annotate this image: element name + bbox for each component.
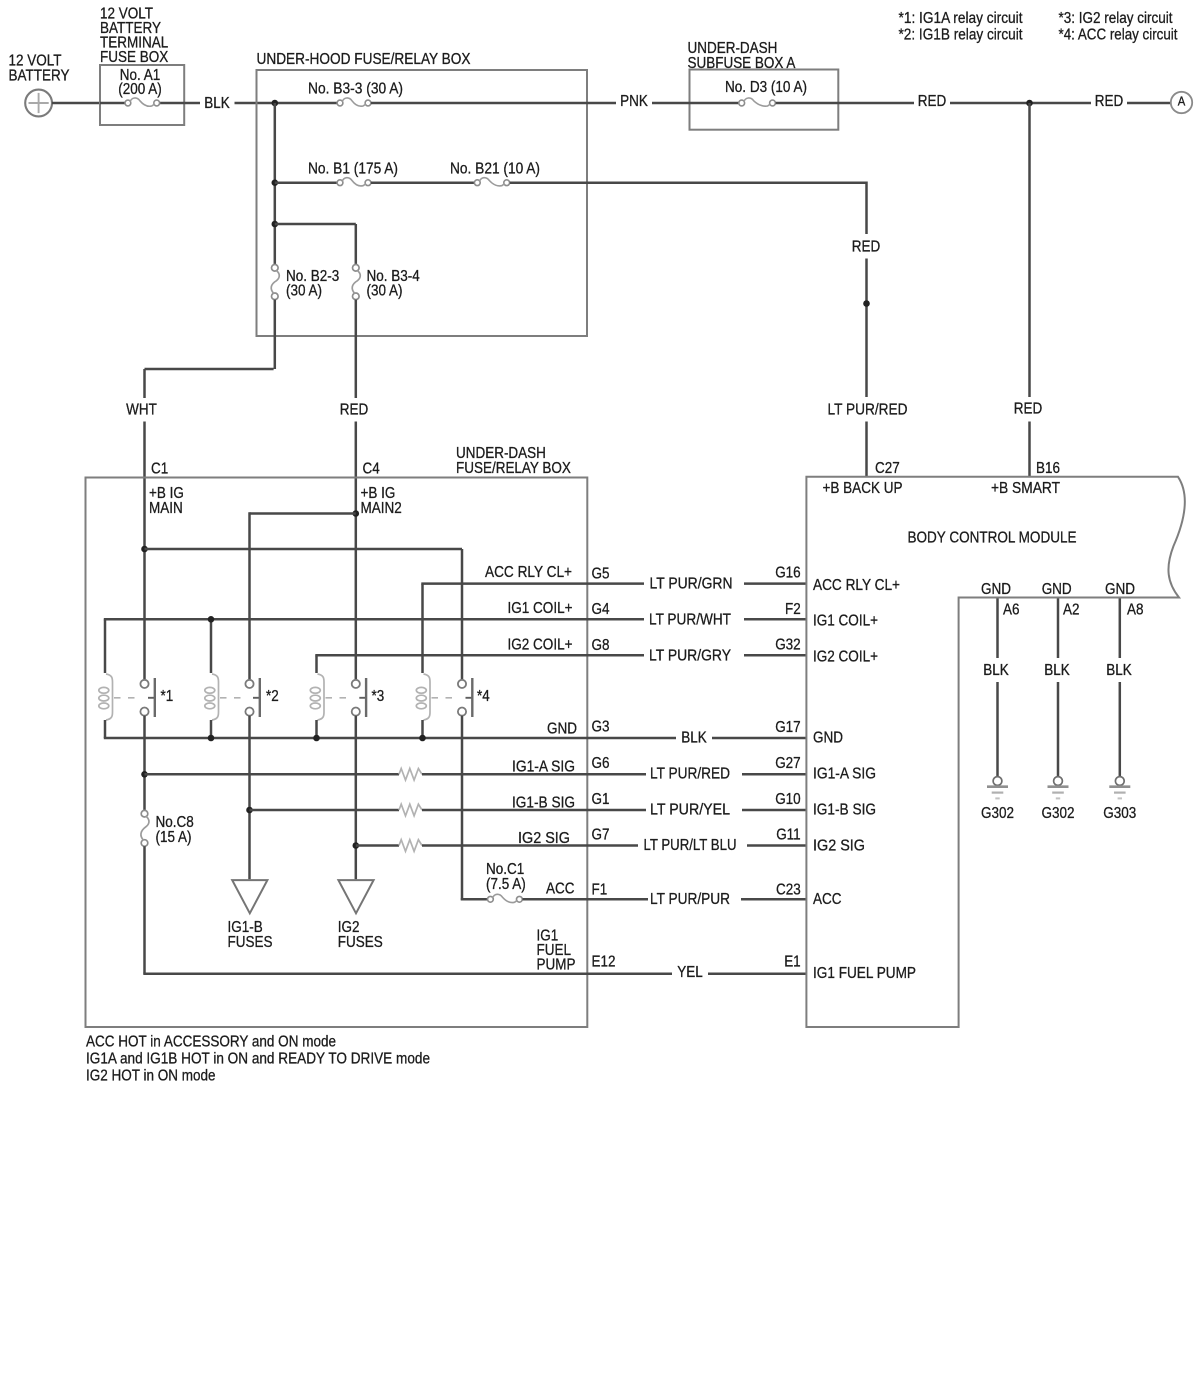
svg-text:IG1-A SIG: IG1-A SIG bbox=[512, 759, 575, 776]
svg-text:IG1 COIL+: IG1 COIL+ bbox=[508, 600, 573, 617]
ground G302 bbox=[981, 777, 1014, 823]
svg-text:PNK: PNK bbox=[620, 93, 648, 110]
svg-text:ACC: ACC bbox=[546, 881, 575, 898]
row GND G3-G17 BLK bbox=[547, 719, 843, 747]
svg-text:BATTERY: BATTERY bbox=[9, 68, 70, 85]
svg-text:G303: G303 bbox=[1103, 805, 1136, 822]
fuse No. A1 (200 A) bbox=[100, 67, 184, 106]
svg-text:IG1 FUEL PUMP: IG1 FUEL PUMP bbox=[813, 965, 916, 982]
svg-text:A6: A6 bbox=[1003, 602, 1020, 619]
relay *4 coil bbox=[416, 674, 430, 720]
svg-text:G6: G6 bbox=[592, 755, 610, 772]
svg-text:G1: G1 bbox=[592, 791, 610, 808]
label WHT bbox=[126, 402, 157, 419]
under-dash fuse/relay box bbox=[86, 445, 588, 1027]
relay *4 contact bbox=[432, 678, 473, 717]
wire GND pin to ground G303 (BLK) bbox=[1106, 599, 1132, 777]
svg-text:*4: *4 bbox=[477, 688, 490, 705]
wire B3-3 to PNK label bbox=[371, 93, 648, 110]
IG2 FUSES arrow bbox=[338, 880, 383, 951]
svg-text:RED: RED bbox=[852, 239, 881, 256]
svg-text:UNDER-HOOD FUSE/RELAY BOX: UNDER-HOOD FUSE/RELAY BOX bbox=[257, 51, 472, 68]
relay *3 contact bbox=[326, 678, 367, 717]
row IG2 SIG with resistor bbox=[356, 827, 865, 855]
under-dash subfuse box A bbox=[688, 40, 839, 130]
svg-text:(30 A): (30 A) bbox=[286, 283, 322, 300]
label *4 bbox=[477, 688, 490, 705]
svg-text:FUSE BOX: FUSE BOX bbox=[100, 49, 169, 66]
svg-text:ACC HOT in ACCESSORY and ON mo: ACC HOT in ACCESSORY and ON mode bbox=[86, 1034, 336, 1051]
relay *1 contact bbox=[114, 678, 155, 717]
wire IG2 COIL+ from coil *3 bbox=[315, 655, 644, 673]
note IG1A IG1B HOT bbox=[86, 1051, 430, 1068]
row IG1-A SIG with resistor bbox=[145, 755, 877, 783]
svg-text:A2: A2 bbox=[1063, 602, 1080, 619]
wire GND pin to ground G302 (BLK) bbox=[1044, 599, 1070, 777]
svg-text:*1: IG1A relay circuit: *1: IG1A relay circuit bbox=[899, 10, 1024, 27]
svg-text:C4: C4 bbox=[363, 461, 381, 478]
wire RED to node and connector A bbox=[950, 93, 1171, 110]
label *3 bbox=[372, 688, 385, 705]
svg-text:RED: RED bbox=[1014, 401, 1043, 418]
svg-text:IG1-B SIG: IG1-B SIG bbox=[512, 795, 575, 812]
svg-text:LT PUR/GRN: LT PUR/GRN bbox=[650, 576, 733, 593]
svg-text:(7.5 A): (7.5 A) bbox=[486, 876, 526, 893]
svg-text:MAIN: MAIN bbox=[149, 500, 183, 517]
row IG1 COIL+ G4-F2 LT PUR/WHT bbox=[508, 600, 879, 630]
row IG1-B SIG with resistor bbox=[250, 791, 877, 819]
svg-text:MAIN2: MAIN2 bbox=[361, 500, 402, 517]
svg-text:BLK: BLK bbox=[204, 95, 230, 112]
svg-text:RED: RED bbox=[1095, 93, 1124, 110]
wire relay 2 contact down bbox=[246, 716, 253, 880]
wire relay 3 contact down bbox=[353, 716, 360, 880]
svg-text:G16: G16 bbox=[775, 565, 801, 582]
svg-text:C23: C23 bbox=[776, 882, 801, 899]
wire WHT to C1 bbox=[143, 422, 146, 479]
svg-text:LT PUR/RED: LT PUR/RED bbox=[828, 401, 908, 418]
relay *2 contact bbox=[220, 678, 260, 717]
svg-text:(200 A): (200 A) bbox=[118, 81, 162, 98]
label RED feed C4 bbox=[340, 402, 369, 419]
node branch to B2-3/B3-4 bbox=[272, 221, 356, 265]
wire D3 to RED label bbox=[776, 93, 947, 110]
fuse No. B21 (10 A) bbox=[371, 161, 540, 186]
svg-text:LT PUR/YEL: LT PUR/YEL bbox=[650, 802, 730, 819]
wire C4 branch to relay 2 contact bbox=[250, 512, 356, 679]
wire C1 down to relay 1 contact bbox=[141, 479, 148, 680]
svg-text:F1: F1 bbox=[592, 882, 608, 899]
svg-text:A8: A8 bbox=[1127, 602, 1144, 619]
svg-text:G4: G4 bbox=[592, 601, 610, 618]
row ACC RLY CL+ G5-G16 LT PUR/GRN bbox=[485, 564, 900, 594]
svg-text:*3: *3 bbox=[372, 688, 385, 705]
pin B16 +B SMART bbox=[991, 460, 1060, 497]
relay *1 coil bbox=[99, 674, 113, 720]
wire C4 down to relay 3 contact bbox=[353, 479, 360, 680]
wire B21 branch down to C27, label RED bbox=[852, 239, 881, 397]
fuse No.C8 (15 A) bbox=[141, 810, 194, 846]
wire ACC RLY CL+ from relay *4 coil bbox=[421, 584, 644, 673]
svg-text:IG2 SIG: IG2 SIG bbox=[813, 838, 865, 855]
svg-text:*2: IG1B relay circuit: *2: IG1B relay circuit bbox=[899, 27, 1024, 44]
pin C1 +B IG MAIN bbox=[149, 461, 184, 518]
row IG1 FUEL PUMP E12-E1 YEL bbox=[143, 927, 916, 982]
note ACC HOT bbox=[86, 1034, 336, 1051]
svg-text:FUSES: FUSES bbox=[338, 934, 383, 951]
svg-text:RED: RED bbox=[918, 93, 947, 110]
connector A bbox=[1171, 92, 1192, 113]
fuse No.C1 (7.5 A) bbox=[486, 861, 526, 903]
svg-text:IG2 SIG: IG2 SIG bbox=[518, 830, 570, 847]
legend relay circuits bbox=[899, 10, 1179, 44]
fuse No. B3-3 (30 A) bbox=[308, 81, 403, 107]
wire coil ground bus bbox=[104, 720, 676, 741]
svg-text:G302: G302 bbox=[1042, 805, 1075, 822]
wire battery to fuse box A1 bbox=[52, 102, 100, 105]
node main feed junction bbox=[272, 100, 279, 107]
svg-text:YEL: YEL bbox=[677, 964, 703, 981]
svg-text:No. B3-3 (30 A): No. B3-3 (30 A) bbox=[308, 81, 403, 98]
pin C4 +B IG MAIN2 bbox=[361, 461, 402, 518]
fuse No. B1 (175 A) bbox=[275, 161, 398, 186]
svg-text:G7: G7 bbox=[592, 827, 610, 844]
svg-text:IG1 COIL+: IG1 COIL+ bbox=[813, 613, 878, 630]
pin C27 +B BACK UP bbox=[823, 460, 903, 497]
label *1 bbox=[161, 688, 174, 705]
svg-text:*1: *1 bbox=[161, 688, 174, 705]
svg-text:+B SMART: +B SMART bbox=[991, 480, 1060, 497]
svg-text:IG1-B SIG: IG1-B SIG bbox=[813, 802, 876, 819]
svg-text:G302: G302 bbox=[981, 805, 1014, 822]
fuse No. B2-3 (30 A) bbox=[271, 265, 339, 300]
svg-text:WHT: WHT bbox=[126, 402, 157, 419]
pins GND A6 A2 A8 bbox=[981, 581, 1144, 619]
svg-text:GND: GND bbox=[547, 721, 577, 738]
note IG2 HOT bbox=[86, 1067, 216, 1084]
label LT PUR/RED bbox=[828, 401, 908, 418]
body control module box bbox=[806, 477, 1185, 1027]
svg-text:LT PUR/WHT: LT PUR/WHT bbox=[649, 612, 731, 629]
svg-text:BLK: BLK bbox=[983, 662, 1009, 679]
wire A1 to under-hood box, label BLK bbox=[184, 95, 337, 112]
wire GND pin to ground G302 (BLK) bbox=[983, 599, 1009, 777]
12V battery terminal fuse box (box) bbox=[100, 6, 184, 125]
relay *2 coil bbox=[205, 674, 219, 720]
svg-text:C1: C1 bbox=[151, 461, 168, 478]
svg-text:G8: G8 bbox=[592, 637, 610, 654]
svg-text:No. D3 (10 A): No. D3 (10 A) bbox=[725, 79, 807, 96]
svg-text:ACC: ACC bbox=[813, 891, 842, 908]
IG1-B FUSES arrow bbox=[228, 880, 273, 951]
svg-text:No. B1 (175 A): No. B1 (175 A) bbox=[308, 161, 398, 178]
svg-text:*2: *2 bbox=[266, 688, 279, 705]
svg-text:ACC RLY CL+: ACC RLY CL+ bbox=[813, 577, 900, 594]
svg-text:RED: RED bbox=[340, 402, 369, 419]
under-hood fuse/relay box bbox=[257, 51, 588, 336]
svg-text:B16: B16 bbox=[1036, 460, 1060, 477]
relay *3 coil bbox=[310, 674, 324, 720]
svg-text:+B BACK UP: +B BACK UP bbox=[823, 480, 903, 497]
svg-text:GND: GND bbox=[1105, 581, 1135, 598]
wire RED to C4 bbox=[355, 422, 358, 479]
svg-text:BLK: BLK bbox=[1106, 662, 1132, 679]
svg-text:G17: G17 bbox=[775, 719, 801, 736]
svg-text:PUMP: PUMP bbox=[537, 956, 576, 973]
svg-text:BLK: BLK bbox=[1044, 662, 1070, 679]
wire PNK to subfuse box bbox=[652, 102, 739, 105]
battery B1 12V bbox=[9, 53, 70, 117]
svg-text:FUSE/RELAY BOX: FUSE/RELAY BOX bbox=[456, 460, 571, 477]
wire relay 1 contact down bbox=[141, 716, 148, 811]
wire B3-4 down (RED feed) bbox=[355, 300, 358, 398]
wire main vertical in under-hood box bbox=[274, 103, 277, 264]
svg-text:(15 A): (15 A) bbox=[156, 829, 192, 846]
node B1 feed junction bbox=[272, 179, 279, 186]
svg-text:E12: E12 bbox=[592, 954, 616, 971]
svg-text:G11: G11 bbox=[776, 827, 801, 844]
wire IG1 COIL+ from coils *1 *2 bbox=[104, 616, 644, 673]
svg-text:BODY CONTROL MODULE: BODY CONTROL MODULE bbox=[908, 529, 1077, 546]
svg-text:IG1A and IG1B HOT in ON and RE: IG1A and IG1B HOT in ON and READY TO DRI… bbox=[86, 1051, 430, 1068]
svg-text:G5: G5 bbox=[592, 566, 610, 583]
label *2 bbox=[266, 688, 279, 705]
svg-text:E1: E1 bbox=[784, 954, 801, 971]
ground G302 bbox=[1042, 777, 1075, 823]
svg-text:C27: C27 bbox=[875, 460, 900, 477]
svg-text:*4: ACC relay circuit: *4: ACC relay circuit bbox=[1059, 27, 1179, 44]
svg-text:LT PUR/LT BLU: LT PUR/LT BLU bbox=[644, 837, 737, 854]
row IG2 COIL+ G8-G32 LT PUR/GRY bbox=[508, 637, 879, 666]
svg-text:G32: G32 bbox=[775, 637, 801, 654]
wire LT PUR/RED to C27 bbox=[865, 422, 868, 477]
row ACC F1-C23 LT PUR/PUR bbox=[523, 881, 842, 909]
svg-text:IG2 HOT in ON mode: IG2 HOT in ON mode bbox=[86, 1067, 216, 1084]
ground G303 bbox=[1103, 777, 1136, 823]
svg-text:G3: G3 bbox=[592, 719, 610, 736]
svg-text:No. B21 (10 A): No. B21 (10 A) bbox=[450, 161, 540, 178]
svg-text:GND: GND bbox=[1042, 581, 1072, 598]
fuse No. B3-4 (30 A) bbox=[352, 265, 420, 300]
wire C8 down to fuel pump row bbox=[143, 846, 146, 974]
svg-text:IG1-A SIG: IG1-A SIG bbox=[813, 766, 876, 783]
svg-text:LT PUR/RED: LT PUR/RED bbox=[650, 766, 730, 783]
svg-text:IG2 COIL+: IG2 COIL+ bbox=[813, 649, 878, 666]
wire C1 branch to relay 4 contact bbox=[145, 549, 463, 679]
svg-text:BLK: BLK bbox=[681, 730, 707, 747]
fuse No. D3 (10 A) bbox=[725, 79, 807, 106]
wire B2-3 down and left (WHT feed) bbox=[145, 300, 275, 398]
wire +B SMART down from node, label RED bbox=[1014, 103, 1043, 476]
svg-text:IG2 COIL+: IG2 COIL+ bbox=[508, 637, 573, 654]
svg-text:G10: G10 bbox=[775, 791, 801, 808]
svg-text:LT PUR/GRY: LT PUR/GRY bbox=[649, 648, 731, 665]
svg-text:ACC RLY CL+: ACC RLY CL+ bbox=[485, 564, 572, 581]
svg-text:SUBFUSE BOX A: SUBFUSE BOX A bbox=[688, 55, 796, 72]
svg-text:G27: G27 bbox=[775, 755, 801, 772]
svg-text:LT PUR/PUR: LT PUR/PUR bbox=[650, 891, 730, 908]
svg-text:GND: GND bbox=[981, 581, 1011, 598]
svg-text:GND: GND bbox=[813, 730, 843, 747]
wire relay 4 contact down bbox=[461, 716, 488, 901]
svg-text:*3: IG2 relay circuit: *3: IG2 relay circuit bbox=[1059, 10, 1174, 27]
svg-text:A: A bbox=[1178, 93, 1186, 108]
wire B21 to +B BACK UP corner bbox=[510, 182, 867, 235]
svg-text:(30 A): (30 A) bbox=[367, 283, 403, 300]
svg-text:FUSES: FUSES bbox=[228, 934, 273, 951]
svg-text:F2: F2 bbox=[785, 601, 801, 618]
